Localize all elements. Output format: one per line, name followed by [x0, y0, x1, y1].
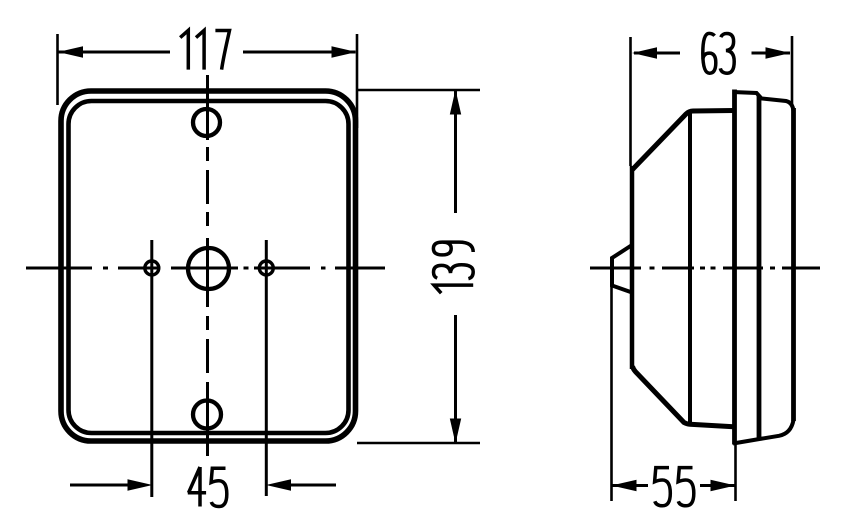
bottom mounting hole: [193, 401, 221, 429]
dimension 63: dimension line: [634, 52, 680, 55]
housing bottom slant and bottom edge: [633, 366, 734, 427]
dimension 55: dimension line: [613, 484, 649, 487]
dimension 63: label: [703, 33, 734, 73]
dimension 63: extension lines: [629, 37, 632, 166]
right small hole cross: [259, 261, 273, 275]
dimension 63: right arrowhead: [766, 47, 791, 58]
dimension 55: left extension line: [610, 287, 613, 501]
housing/lens joint line: [688, 112, 692, 424]
dimension 55: label: [655, 468, 694, 506]
side view centerline: [590, 267, 820, 270]
lens cap front edge: [732, 90, 737, 445]
center hole: [188, 248, 229, 289]
dimension 117: label: [180, 30, 229, 69]
dimension 45: left arrowhead (points right): [128, 479, 153, 490]
dimension 117: dimension line: [59, 51, 171, 54]
dimension 117: extension lines: [56, 34, 59, 105]
dimension 45: right arrowhead (points left): [266, 479, 291, 490]
lamp inner lens outline (rounded rectangle): [69, 101, 349, 433]
horizontal centerline: [26, 267, 385, 270]
dimension 55: left arrowhead: [612, 480, 637, 491]
lens cap bottom edge: [733, 420, 794, 444]
housing top slant and top edge: [633, 111, 735, 170]
dimension 139: dimension line: [454, 91, 457, 213]
dimension 139: extension lines: [357, 89, 480, 92]
dimension 45: label: [188, 467, 227, 507]
lens cap outer edge: [791, 108, 796, 421]
mounting stud bump: [612, 245, 632, 293]
top mounting hole: [193, 109, 220, 136]
dimension 63: left arrowhead: [632, 47, 657, 58]
dimension 139: top arrowhead: [450, 90, 461, 115]
housing back edge: [630, 166, 635, 369]
vertical centerline: [206, 75, 209, 456]
lamp outer lens outline (rounded rectangle): [61, 91, 356, 441]
dimension 139: bottom arrowhead: [450, 419, 461, 444]
lens cap top edge: [733, 92, 794, 111]
dimension 117: left arrowhead: [58, 46, 83, 57]
dimension 139: label (rotated): [433, 242, 473, 293]
left small hole cross: [145, 261, 159, 275]
dimension 55: right arrowhead: [711, 480, 736, 491]
dimension 45: dimension line with outside arrows: [70, 484, 128, 487]
dimension 55: right extension line: [734, 444, 737, 501]
lens cap middle ring: [757, 96, 762, 439]
dimension 117: right arrowhead: [332, 46, 357, 57]
